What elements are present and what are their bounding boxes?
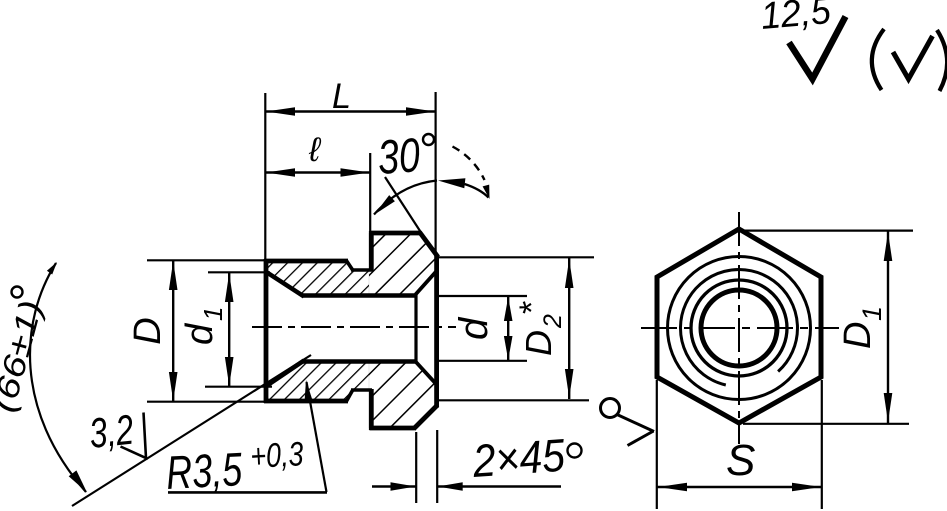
S dimension line bbox=[657, 486, 822, 488]
surface finish check symbol bbox=[789, 17, 846, 80]
2x45 dim line left part bbox=[372, 485, 416, 487]
D2 top extension line bbox=[438, 256, 594, 258]
section hatching lower body band bbox=[266, 362, 371, 402]
30deg chamfer extension line bbox=[385, 177, 422, 234]
svg-text:2: 2 bbox=[539, 314, 567, 329]
D1 arrow down bbox=[884, 393, 893, 422]
hex horizontal centerline bbox=[641, 327, 839, 329]
d bottom extension line bbox=[438, 360, 527, 362]
D top extension line bbox=[147, 259, 268, 261]
bore bottom line bbox=[302, 359, 417, 364]
label 2x45 bbox=[470, 429, 567, 487]
flare direction dashed arc bbox=[453, 147, 485, 181]
hex vertical centerline bbox=[738, 212, 740, 444]
svg-text:2×45: 2×45 bbox=[470, 429, 567, 487]
l arrow left bbox=[266, 168, 295, 177]
marking leader barb bbox=[628, 431, 654, 446]
label R3,5 bbox=[165, 442, 244, 499]
flange left face upper bbox=[369, 231, 374, 272]
label D2* bbox=[513, 301, 567, 356]
svg-text:12,5: 12,5 bbox=[759, 0, 833, 38]
top step chamfer bbox=[346, 260, 353, 271]
body left end face bbox=[264, 259, 269, 403]
section hatching lower flange bbox=[369, 362, 437, 429]
roughness mark 3,2 symbol bbox=[121, 413, 147, 459]
degree mark of 45 bbox=[568, 444, 582, 458]
label d bbox=[452, 316, 496, 340]
d arrow up bbox=[504, 297, 513, 321]
body top edge (dia D) bbox=[264, 259, 348, 264]
S arrow right bbox=[792, 483, 821, 492]
D bottom extension line bbox=[147, 401, 272, 403]
thread major circle (3/4 arc) bbox=[680, 270, 797, 385]
66deg arc bottom arrowhead bbox=[69, 470, 87, 492]
2x45 arrow pointing left bbox=[438, 482, 463, 490]
d1 arrow up bbox=[225, 273, 234, 302]
D2 arrow up bbox=[565, 259, 574, 288]
S right extension line bbox=[821, 380, 823, 509]
svg-text:L: L bbox=[332, 77, 351, 116]
D2 arrow down bbox=[565, 369, 574, 398]
label D bbox=[127, 317, 169, 344]
2x45 arrow pointing right bbox=[391, 482, 416, 490]
D1 dimension line bbox=[887, 230, 889, 424]
66deg angle arc bbox=[30, 263, 86, 492]
L left extension line bbox=[264, 93, 266, 262]
svg-text:+0,3: +0,3 bbox=[249, 435, 304, 476]
30deg arc arrow on slant line bbox=[375, 195, 395, 214]
section hatching upper body band bbox=[266, 261, 371, 296]
svg-text:1: 1 bbox=[857, 306, 887, 321]
svg-text:d: d bbox=[452, 316, 496, 340]
svg-text:30: 30 bbox=[376, 129, 422, 185]
D1 top extension line bbox=[739, 230, 913, 232]
D1 bottom extension line bbox=[743, 423, 909, 425]
section axis centerline bbox=[252, 326, 456, 328]
svg-text:1: 1 bbox=[198, 307, 228, 321]
d1 top extension line bbox=[208, 271, 270, 273]
label L bbox=[332, 77, 351, 116]
washer face circle bbox=[668, 257, 811, 400]
d arrow down bbox=[504, 336, 513, 360]
label l (small length) bbox=[308, 131, 322, 169]
body bottom edge (dia D) bbox=[264, 399, 348, 404]
label +0,3 tolerance bbox=[249, 435, 304, 476]
marking leader line bbox=[617, 415, 654, 432]
svg-text:D: D bbox=[127, 317, 169, 344]
R3.5 leader line bbox=[307, 382, 327, 492]
2x45 dim line right part bbox=[437, 485, 561, 487]
d1 arrow down bbox=[225, 357, 234, 386]
L dimension line bbox=[265, 110, 436, 112]
cone surface extension line bbox=[72, 355, 311, 506]
flange left face lower bbox=[369, 389, 374, 430]
d top extension line bbox=[438, 295, 527, 297]
flange right end face bbox=[434, 255, 439, 408]
parenthesis right bbox=[937, 30, 947, 91]
bore top line bbox=[302, 293, 417, 298]
svg-text:S: S bbox=[726, 436, 755, 485]
flare arc end arrowhead bbox=[483, 185, 490, 199]
svg-text:D: D bbox=[518, 330, 559, 356]
countersink cone lower-left bbox=[266, 361, 305, 387]
section hatching upper flange bbox=[369, 233, 437, 296]
parenthesis left bbox=[872, 29, 884, 90]
label D1 bbox=[837, 306, 887, 349]
label 3,2 bbox=[87, 406, 136, 457]
l right extension line bbox=[369, 153, 371, 232]
neck bottom edge bbox=[351, 388, 372, 392]
exit cone upper-right bbox=[416, 271, 438, 295]
svg-text:3,2: 3,2 bbox=[87, 406, 136, 457]
l dimension line bbox=[265, 171, 370, 173]
neck top edge bbox=[351, 268, 372, 272]
flange 30deg chamfer bbox=[420, 232, 439, 257]
30deg angle arc bbox=[374, 181, 437, 215]
exit cone lower-right bbox=[416, 362, 438, 386]
l arrow right bbox=[341, 168, 370, 177]
D2 bottom extension line bbox=[438, 399, 589, 401]
label d1 bbox=[179, 307, 228, 345]
R3.5 leader arrow bbox=[305, 380, 313, 402]
D1 arrow up bbox=[884, 232, 893, 261]
countersink cone upper-left bbox=[266, 272, 305, 297]
surface finish value 12,5 bbox=[759, 0, 833, 38]
label S bbox=[726, 436, 755, 485]
R3.5 shelf underline bbox=[168, 491, 327, 494]
chamfer circle bbox=[691, 280, 787, 376]
2x45 right extension line bbox=[436, 430, 438, 503]
bottom step chamfer bbox=[346, 390, 353, 403]
degree mark of 66 bbox=[12, 287, 23, 298]
svg-text:R3,5: R3,5 bbox=[165, 442, 244, 499]
label 30 bbox=[376, 129, 422, 185]
S left extension line bbox=[656, 380, 658, 509]
D2 dimension line bbox=[568, 258, 570, 399]
L arrow right bbox=[406, 107, 435, 116]
d1 bottom extension line bbox=[205, 386, 272, 388]
flange bottom edge bbox=[370, 426, 415, 431]
svg-text:*: * bbox=[513, 301, 551, 314]
flange top edge bbox=[370, 231, 422, 236]
svg-text:ℓ: ℓ bbox=[308, 131, 322, 169]
D arrow up bbox=[169, 261, 178, 290]
30deg arc arrow at face line bbox=[438, 178, 465, 188]
S arrow left bbox=[658, 483, 687, 492]
2x45 left extension line bbox=[415, 432, 417, 503]
d1 dimension line bbox=[228, 272, 230, 387]
L arrow left bbox=[266, 107, 295, 116]
svg-text:d: d bbox=[179, 322, 221, 345]
L right extension line bbox=[435, 92, 437, 256]
bore end edge bbox=[414, 294, 417, 364]
marking symbol circle bbox=[601, 399, 620, 418]
66deg arc top arrowhead bbox=[47, 262, 57, 275]
d dimension line bbox=[507, 296, 509, 361]
bore circle bbox=[701, 290, 777, 366]
flange 2x45 chamfer bbox=[414, 405, 438, 429]
svg-text:D: D bbox=[837, 322, 879, 349]
flare direction arc tail bbox=[465, 184, 489, 198]
degree mark of 30 bbox=[423, 134, 434, 145]
default finish check symbol bbox=[893, 36, 933, 79]
label (66±1) bbox=[0, 296, 49, 415]
hexagon outline bbox=[657, 229, 821, 423]
D arrow down bbox=[169, 372, 178, 401]
D dimension line bbox=[172, 260, 174, 402]
